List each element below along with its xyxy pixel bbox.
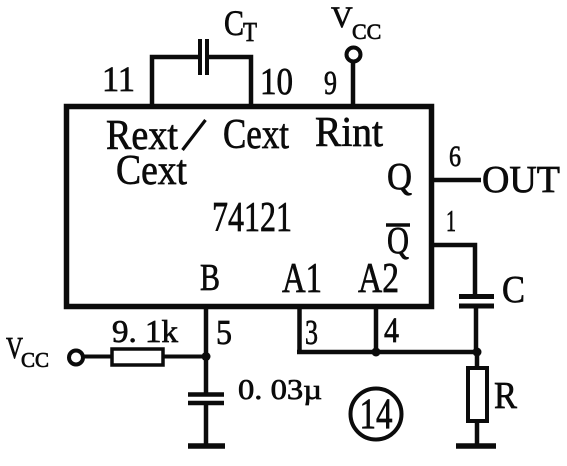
svg-text:C: C (224, 3, 244, 43)
svg-text:14: 14 (360, 391, 393, 438)
svg-text:Rint: Rint (315, 110, 383, 156)
svg-text:9: 9 (324, 65, 337, 102)
svg-text:A2: A2 (358, 256, 399, 302)
svg-text:B: B (200, 257, 220, 299)
svg-text:C: C (502, 269, 525, 311)
svg-text:4: 4 (384, 310, 399, 350)
svg-text:A1: A1 (282, 256, 322, 302)
svg-text:1: 1 (446, 203, 456, 238)
svg-text:OUT: OUT (482, 159, 560, 201)
svg-text:3: 3 (305, 313, 318, 352)
svg-text:CC: CC (352, 19, 381, 44)
svg-text:5: 5 (216, 313, 232, 352)
svg-text:0. 03µ: 0. 03µ (238, 374, 322, 406)
svg-text:Cext: Cext (223, 112, 289, 158)
svg-text:74121: 74121 (212, 195, 292, 241)
svg-text:CC: CC (21, 348, 49, 372)
svg-text:V: V (331, 1, 353, 34)
svg-text:10: 10 (260, 61, 293, 103)
svg-text:R: R (494, 375, 518, 417)
svg-text:6: 6 (449, 140, 461, 173)
svg-text:11: 11 (102, 59, 135, 99)
svg-text:T: T (243, 17, 257, 47)
svg-text:9. 1k: 9. 1k (112, 313, 178, 349)
svg-text:Cext: Cext (116, 148, 187, 194)
svg-text:Q: Q (387, 156, 412, 198)
